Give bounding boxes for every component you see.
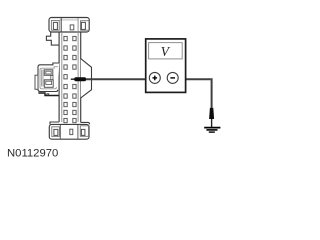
wire meter-to-corner bbox=[178, 78, 211, 80]
bottom-left ear terminal square bbox=[54, 129, 58, 135]
pin row 5 (probe row) bbox=[64, 75, 67, 79]
pin row 4 bbox=[64, 65, 76, 69]
connector C2 inner shell bbox=[40, 67, 58, 89]
ground lead wedge bbox=[209, 108, 214, 119]
connector C1 top mounting block bbox=[49, 18, 89, 33]
pin row 1 bbox=[64, 36, 76, 40]
voltmeter minus sign bbox=[170, 77, 175, 79]
connector C2 cavity joining bar bbox=[51, 75, 53, 80]
wire connector-to-meter bbox=[84, 78, 149, 80]
top cap inner line bbox=[59, 19, 78, 21]
connector C2 interior ribs bbox=[41, 70, 43, 87]
pin row 9 bbox=[64, 110, 76, 114]
pin row 3 bbox=[64, 55, 76, 59]
pin row 8 bbox=[64, 102, 76, 106]
bottom-right ear inner rect bbox=[80, 126, 88, 137]
probe stub into pin bbox=[71, 78, 75, 80]
connector C2 upper cavity mark bbox=[46, 71, 51, 74]
ground lead thin wire bbox=[211, 119, 213, 127]
voltmeter V1 box bbox=[146, 39, 186, 93]
connector C1 left inner wall bbox=[61, 32, 63, 122]
voltmeter plus terminal circle bbox=[149, 72, 160, 83]
top-left ear terminal square bbox=[53, 22, 57, 29]
ground symbol bar 1 bbox=[204, 127, 220, 129]
top-right ear terminal square bbox=[81, 22, 85, 29]
connector C2 upper cavity bbox=[44, 70, 53, 76]
connector C2 side housing outer shell bbox=[38, 63, 59, 92]
pin cavity top single bbox=[70, 25, 74, 30]
bottom-left ear inner rect bbox=[52, 127, 60, 137]
connector C2 lower cavity mark bbox=[46, 81, 52, 84]
ground symbol bar 3 bbox=[209, 131, 215, 133]
connector C2 lower cavity bbox=[44, 80, 53, 88]
connector C2 bottom step tab bbox=[47, 94, 49, 96]
connector C1 bottom mounting block bbox=[49, 124, 89, 139]
connector C1 right outer wall bbox=[80, 32, 82, 123]
voltmeter minus terminal circle bbox=[167, 72, 178, 83]
connector C1 upper-left zigzag bracket bbox=[46, 32, 59, 45]
probe blob on pin bbox=[74, 77, 86, 81]
pin row 6 bbox=[64, 84, 76, 88]
connector C1 right inner wall / top seam bbox=[77, 18, 79, 122]
bottom block left seam bbox=[59, 125, 61, 139]
voltmeter plus sign bbox=[153, 76, 158, 81]
connector C1 lower-right bracket bbox=[81, 122, 90, 124]
connector C1 left outer wall bbox=[58, 32, 60, 123]
ground symbol bar 2 bbox=[206, 129, 217, 131]
voltmeter display window bbox=[149, 43, 183, 59]
top block left seam bbox=[60, 18, 62, 32]
bottom-right ear terminal square bbox=[81, 129, 85, 135]
connector C1 right wing flange bbox=[81, 59, 92, 98]
connector C2 left latch tab bbox=[35, 75, 38, 89]
svg-text:N0112970: N0112970 bbox=[7, 147, 58, 159]
pin cavity bottom single bbox=[70, 129, 73, 134]
pin row 10 bbox=[64, 118, 76, 122]
top-right ear inner rect bbox=[81, 21, 89, 31]
top-left ear inner rect bbox=[51, 21, 59, 31]
connector C1 lower-left bracket bbox=[50, 122, 59, 124]
pin row 2 bbox=[64, 46, 76, 50]
connector C2 bottom step line bbox=[38, 93, 58, 96]
pin row 7 bbox=[64, 94, 76, 98]
wire corner vertical bbox=[211, 78, 213, 108]
bottom block right seam bbox=[77, 125, 79, 139]
